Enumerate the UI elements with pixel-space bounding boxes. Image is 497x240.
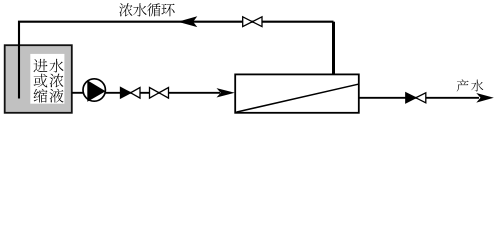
valve V2 (recirculation): left half	[243, 17, 253, 27]
valve V1 (feed): right half	[159, 88, 169, 99]
wire: module product outlet run	[358, 97, 479, 99]
wire: recirculation return (down into tank, up-left corner, top run)	[19, 22, 334, 99]
tank label box	[30, 54, 64, 104]
flow arrow product outlet	[476, 93, 494, 103]
pump P1: casing circle	[83, 79, 105, 101]
flow arrow into module	[217, 88, 235, 97]
label 产水 (product water)	[457, 79, 469, 91]
check valve CV2 (product): open half	[416, 93, 426, 103]
valve V2 (recirculation): right half	[252, 17, 262, 27]
membrane module M1: shell	[235, 74, 359, 112]
flow arrow on recirculation line (toward tank)	[178, 16, 198, 27]
check valve CV1: open half	[131, 88, 140, 99]
wire: tank outlet to pump	[72, 92, 84, 94]
wire: pump discharge to membrane module feed	[105, 92, 220, 94]
check valve CV1: filled half	[121, 88, 131, 99]
tank: feed / concentrate tank	[5, 45, 72, 113]
tank label text 进水或浓缩液	[33, 59, 47, 72]
wire: recirculation downcomer into module top	[332, 22, 335, 75]
membrane module M1: diagonal membrane line	[236, 84, 358, 112]
label 浓水循环 (concentrate recirculation)	[119, 3, 132, 16]
check valve CV2 (product): filled half	[406, 93, 416, 103]
valve V1 (feed): left half	[150, 88, 160, 99]
pump P1: direction triangle	[87, 80, 105, 102]
